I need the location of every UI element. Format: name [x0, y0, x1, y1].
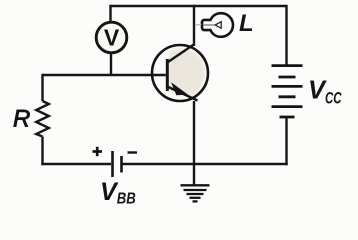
wire: top rail	[111, 5, 287, 7]
label: minus sign	[128, 151, 138, 153]
wire: bottom middle segment	[122, 163, 288, 165]
wire: right vertical upper	[285, 5, 287, 66]
label: plus sign	[93, 147, 103, 156]
wire: collector vertical	[193, 5, 195, 46]
wire: right vertical lower	[285, 117, 287, 165]
wire: base rail	[43, 74, 167, 76]
resistor R	[36, 101, 49, 137]
transistor Q1	[152, 44, 208, 101]
meter V1 voltmeter	[96, 22, 127, 53]
lamp L	[195, 13, 233, 37]
svg-text:V: V	[104, 25, 120, 51]
wire: voltmeter top stem	[109, 5, 111, 23]
wire: bottom left segment	[41, 163, 111, 165]
wire: left vertical upper	[41, 74, 43, 101]
wire: voltmeter bottom stem	[110, 53, 112, 75]
wire: emitter vertical	[193, 101, 195, 185]
ground	[181, 185, 210, 201]
svg-text:L: L	[239, 10, 254, 37]
battery VBB	[113, 151, 122, 177]
battery VCC	[272, 66, 303, 117]
svg-text:R: R	[13, 106, 30, 133]
wire: left vertical lower	[41, 137, 43, 166]
